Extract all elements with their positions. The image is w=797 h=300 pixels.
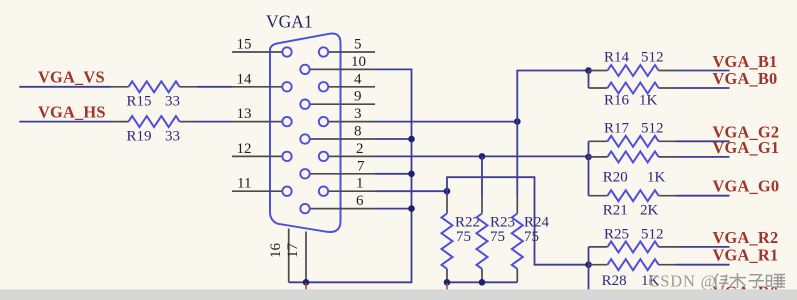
pin 2 circle (319, 152, 328, 161)
junction R node (585, 261, 592, 268)
svg-text:8: 8 (354, 124, 362, 140)
wire VGA_G0 (677, 195, 730, 197)
svg-text:VGA_B0: VGA_B0 (713, 69, 778, 88)
svg-text:13: 13 (237, 106, 252, 122)
svg-text:R20: R20 (603, 170, 628, 186)
svg-text:VGA_B1: VGA_B1 (713, 52, 778, 71)
resistor R25 (589, 246, 608, 248)
svg-text:11: 11 (237, 176, 251, 192)
svg-text:512: 512 (641, 50, 664, 66)
pin 3 circle (319, 117, 328, 126)
pin 4 circle (319, 82, 328, 91)
wire R24 bottom lead (516, 269, 518, 283)
svg-text:2: 2 (356, 141, 364, 157)
pin 13 circle (282, 117, 291, 126)
resistor R23 (477, 214, 488, 269)
ground stub under pin 17 (305, 283, 307, 290)
svg-text:1K: 1K (647, 170, 666, 186)
junction R22 on rail (444, 279, 451, 286)
pin 11 circle (282, 187, 291, 196)
svg-text:12: 12 (237, 141, 252, 157)
resistor R20 (589, 156, 608, 158)
pin 6 (310, 208, 375, 210)
svg-text:R15: R15 (127, 94, 152, 110)
svg-text:VGA_HS: VGA_HS (38, 102, 106, 121)
svg-text:VGA_R1: VGA_R1 (713, 246, 779, 265)
watermark CSDN @伊木子曦 (649, 272, 786, 291)
wire VGA_R2 (677, 246, 730, 248)
svg-text:4: 4 (354, 71, 362, 87)
pin 14 (232, 86, 282, 88)
connector VGA1 body (270, 33, 341, 232)
pin 16 (288, 229, 290, 283)
pin 1 (328, 190, 375, 192)
pin 13 (232, 121, 282, 123)
wire VGA_R1 (677, 264, 730, 266)
junction G node (585, 154, 592, 161)
pin 5 (328, 51, 375, 53)
svg-text:R17: R17 (604, 121, 630, 137)
svg-text:5: 5 (354, 37, 362, 53)
resistor R21 (589, 195, 608, 197)
wire red jog to R node (447, 177, 589, 265)
svg-text:75: 75 (524, 229, 539, 245)
resistor R16 (589, 87, 608, 89)
svg-text:512: 512 (641, 121, 664, 137)
wire VGA_B1 (677, 70, 730, 72)
pin 12 (232, 155, 282, 157)
svg-text:33: 33 (165, 129, 180, 145)
pin 9 (310, 103, 375, 105)
svg-text:17: 17 (285, 243, 301, 259)
wire R22 column down (446, 191, 448, 195)
pin 2 (328, 155, 375, 157)
pin 10 circle (300, 65, 309, 74)
svg-text:2K: 2K (640, 203, 659, 219)
wire G node vertical (588, 141, 590, 195)
wire pin 7 to bus (375, 173, 412, 175)
svg-text:33: 33 (165, 94, 180, 110)
pin 15 circle (282, 47, 291, 56)
svg-text:VGA_G1: VGA_G1 (713, 138, 780, 157)
bottom grey bar (0, 289, 797, 300)
junction R23 on rail (479, 279, 486, 286)
pin 12 circle (282, 152, 291, 161)
wire VGA_HS right (198, 121, 233, 123)
pin 8 (310, 138, 375, 140)
wire VGA_G2 (677, 140, 730, 142)
junction pin 17 on bus rail (303, 279, 310, 286)
wire VGA_VS right (198, 86, 233, 88)
svg-text:75: 75 (456, 229, 471, 245)
pin 14 circle (282, 82, 291, 91)
wire blue video pin 3 to node (375, 121, 517, 123)
wire pin 8 to bus (375, 138, 412, 140)
resistor R15 (111, 86, 129, 88)
pin 8 circle (300, 134, 309, 143)
pin 11 (232, 190, 282, 192)
pin 7 (310, 173, 375, 175)
wire VGA_HS left (19, 121, 110, 123)
svg-text:VGA1: VGA1 (266, 12, 313, 32)
svg-text:9: 9 (354, 89, 362, 105)
pin 9 circle (300, 100, 309, 109)
resistor R24 (512, 214, 523, 269)
svg-text:VGA_R2: VGA_R2 (713, 228, 779, 247)
resistor R14 (589, 70, 608, 72)
svg-text:15: 15 (237, 37, 252, 53)
svg-text:R25: R25 (604, 227, 629, 243)
resistor R22 (442, 214, 453, 269)
svg-text:14: 14 (237, 71, 253, 87)
svg-text:1: 1 (356, 176, 364, 192)
svg-text:R14: R14 (604, 50, 630, 66)
svg-text:R19: R19 (127, 129, 152, 145)
svg-text:16: 16 (268, 243, 284, 259)
pin 5 circle (319, 47, 328, 56)
svg-text:R16: R16 (604, 93, 630, 109)
wire R node down to R29 (cut off) (588, 265, 590, 291)
svg-text:6: 6 (356, 193, 364, 209)
resistor R17 (589, 140, 608, 142)
svg-text:VGA_G0: VGA_G0 (713, 177, 780, 196)
pin 10 (310, 68, 375, 70)
pin 17 (305, 232, 307, 283)
svg-text:VGA_VS: VGA_VS (38, 68, 105, 87)
wire R22 bottom lead (446, 269, 448, 283)
svg-text:7: 7 (357, 158, 365, 174)
pin 7 circle (300, 169, 309, 178)
pin 15 (232, 51, 282, 53)
junction on bus at pin 8 (408, 136, 415, 143)
svg-text:CSDN @: CSDN @ (649, 272, 717, 291)
svg-text:1K: 1K (639, 93, 658, 109)
pin 1 circle (319, 187, 328, 196)
junction green at R23 column (479, 153, 486, 160)
wire VGA_G1 (677, 156, 730, 158)
svg-text:75: 75 (490, 229, 505, 245)
pin 6 circle (300, 204, 309, 213)
resistor R28 (589, 264, 608, 266)
wire VGA_B0 (677, 87, 730, 89)
wire VGA_VS left (19, 86, 110, 88)
wire R23 bottom lead (481, 269, 483, 283)
junction blue video at R24 column (514, 118, 521, 125)
svg-text:10: 10 (351, 54, 366, 70)
wire terminator rail (447, 281, 517, 283)
svg-text:512: 512 (641, 227, 664, 243)
wire green video pin 2 to G node (375, 155, 589, 157)
wire red video pin 1 to terminator (375, 190, 447, 192)
svg-text:R28: R28 (602, 273, 627, 289)
ground stub under R22 (446, 283, 448, 290)
wire R node vertical to R25 (588, 247, 590, 265)
svg-text:R21: R21 (603, 203, 628, 219)
wire ground bus from pin 10 (289, 69, 412, 282)
pin 4 (328, 86, 375, 88)
junction red at R22 column (444, 188, 451, 195)
svg-text:3: 3 (354, 106, 362, 122)
junction B node (585, 67, 592, 74)
wire blue column up and to B node (517, 71, 588, 196)
pin 3 (328, 121, 375, 123)
resistor R19 (111, 121, 129, 123)
junction on bus at pin 7 (408, 171, 415, 178)
wire R23 column down (481, 156, 483, 195)
wire pin 6 to bus (375, 208, 412, 210)
junction on bus at pin 6 (408, 205, 415, 212)
wire B node down (588, 71, 590, 89)
